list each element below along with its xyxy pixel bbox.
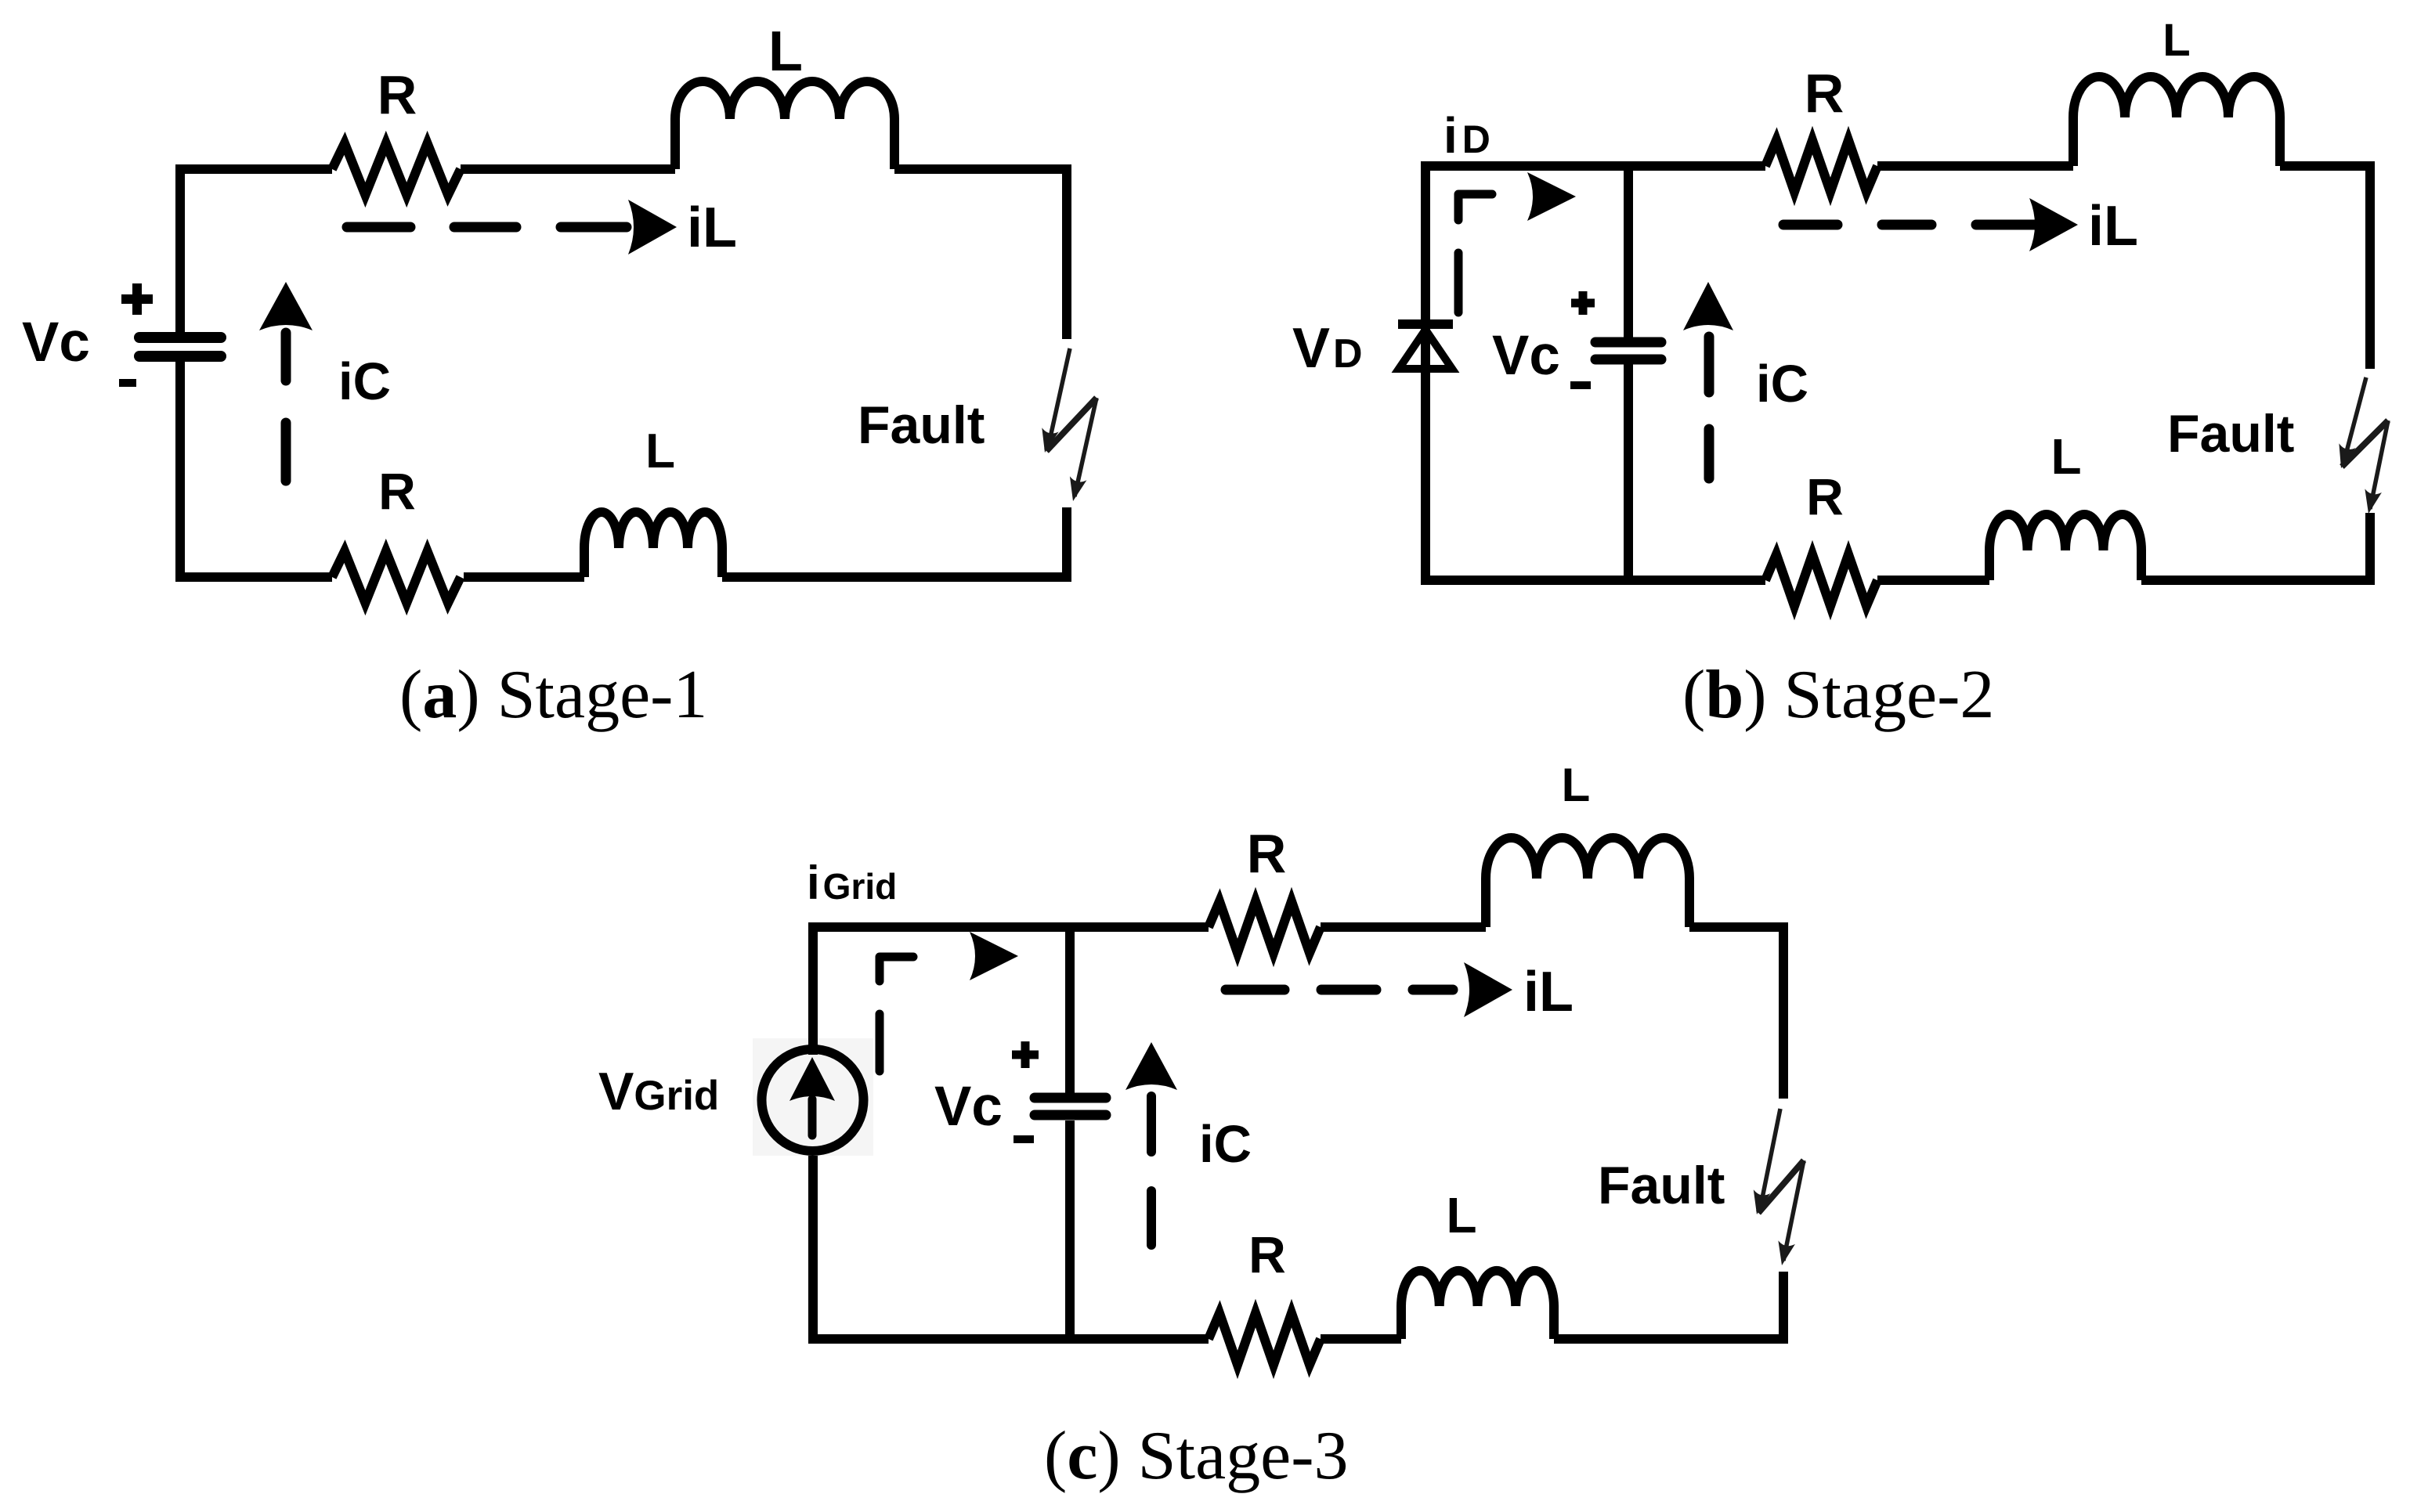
wire: stage3 top between R and L	[1321, 922, 1486, 932]
wire: stage2 top wire to R	[1425, 161, 1765, 171]
wire: stage3 bottom between L and R	[1321, 1334, 1401, 1344]
inductor L (stage1 bottom)	[584, 512, 722, 577]
current arrow iC (stage3)	[1126, 1042, 1177, 1090]
resistor R (stage3 top)	[1209, 901, 1321, 953]
diode VD (stage2): triangle	[1399, 330, 1452, 369]
svg-text:Vc: Vc	[934, 1076, 1003, 1138]
capacitor C (stage3): plates	[1035, 1093, 1106, 1103]
wire: stage2 bottom-left to diode branch	[1425, 576, 1765, 585]
current arrow iC (stage1)	[259, 282, 313, 330]
wire: stage2 right below fault + bottom to inductor	[2141, 513, 2370, 580]
source VGrid (stage3): circle	[762, 1049, 864, 1151]
wire: stage3 bottom-left + left vertical lower	[813, 1156, 1209, 1339]
current arrow iC (stage2)	[1683, 282, 1733, 330]
svg-text:iL: iL	[1523, 961, 1574, 1023]
svg-text:R: R	[378, 462, 416, 520]
resistor R (stage2 top)	[1765, 140, 1877, 192]
inductor L (stage2 bottom)	[1989, 514, 2141, 580]
svg-text:L: L	[1562, 759, 1591, 811]
wire: stage2 capacitor branch upper	[1624, 166, 1633, 337]
svg-text:Vc: Vc	[1492, 325, 1560, 387]
plus sign (stage2 capacitor)	[1571, 291, 1595, 315]
svg-text:L: L	[2162, 15, 2190, 66]
wire: stage1 bottom between L and R	[464, 572, 584, 582]
inductor L (stage3 top)	[1486, 838, 1689, 927]
svg-text:L: L	[645, 424, 675, 478]
capacitor C (stage1): plates	[139, 332, 221, 343]
wire: stage2 capacitor branch lower	[1624, 363, 1633, 580]
svg-text:Vc: Vc	[22, 312, 90, 373]
resistor R (stage3 bottom)	[1209, 1313, 1321, 1365]
halo behind source circle (stage3)	[753, 1038, 873, 1156]
svg-text:iL: iL	[2088, 195, 2138, 258]
current arrow iGrid (stage3, dashed corner)	[880, 957, 913, 981]
wire: stage2 top between R and L	[1877, 161, 2073, 171]
wire: stage1 right below fault, bottom wire to inductor	[722, 507, 1067, 577]
resistor R (stage1 top)	[332, 143, 461, 195]
svg-text:Fault: Fault	[1598, 1156, 1725, 1215]
source VGrid (stage3): arrow inside	[789, 1057, 835, 1101]
svg-text:R: R	[1805, 63, 1845, 124]
svg-text:(c) Stage-3: (c) Stage-3	[1044, 1418, 1349, 1494]
current arrow iL (stage1, dashed)	[347, 222, 627, 233]
svg-text:R: R	[1247, 823, 1287, 884]
svg-text:L: L	[2050, 428, 2081, 485]
wire: stage3 left vertical upper + top wire to R	[813, 927, 1209, 1055]
wire: stage1 top-right corner and right wire to fault gap	[894, 169, 1067, 339]
minus sign (stage1 capacitor)	[119, 379, 136, 387]
wire: stage3 capacitor branch upper	[1065, 927, 1075, 1093]
svg-text:iC: iC	[338, 352, 391, 411]
svg-text:R: R	[1806, 467, 1844, 525]
wire: stage1 top between R and L	[461, 164, 675, 174]
resistor R (stage2 bottom)	[1765, 554, 1877, 606]
current arrow iD (stage2, dashed corner)	[1458, 194, 1492, 220]
resistor R (stage1 bottom)	[332, 551, 461, 603]
current arrow iL (stage3, dashed)	[1226, 985, 1453, 995]
svg-text:(a) Stage-1: (a) Stage-1	[399, 657, 707, 733]
fault lightning bolt (stage1)	[1048, 348, 1070, 448]
fault lightning bolt (stage2)	[2343, 377, 2366, 464]
svg-text:iL: iL	[687, 197, 737, 259]
svg-text:L: L	[1446, 1187, 1476, 1243]
wire: stage3 right below fault + bottom to inductor	[1554, 1272, 1783, 1339]
wire: stage1 left vertical (top half) and top wire to R	[180, 169, 332, 332]
wire: stage3 capacitor branch lower	[1065, 1120, 1075, 1339]
svg-text:R: R	[378, 64, 417, 125]
minus sign (stage2 capacitor)	[1570, 381, 1591, 389]
wire: stage1 bottom-left + left vertical (bottom half)	[180, 362, 332, 577]
plus sign (stage1 capacitor)	[121, 283, 153, 315]
minus sign (stage3 capacitor)	[1014, 1135, 1034, 1143]
svg-text:L: L	[768, 20, 803, 83]
wire: stage3 top-right corner, right wire to fault gap	[1689, 927, 1783, 1099]
fault lightning bolt (stage3)	[1760, 1109, 1780, 1210]
svg-text:R: R	[1248, 1225, 1286, 1283]
current arrow iL (stage2, dashed)	[1783, 220, 2035, 230]
inductor L (stage3 bottom)	[1401, 1271, 1554, 1339]
svg-text:(b) Stage-2: (b) Stage-2	[1682, 657, 1994, 733]
svg-text:iC: iC	[1199, 1115, 1252, 1174]
plus sign (stage3 capacitor)	[1012, 1041, 1039, 1068]
svg-text:iC: iC	[1756, 355, 1808, 413]
inductor L (stage1 top)	[675, 81, 894, 169]
wire: stage2 bottom between L and R	[1877, 576, 1989, 585]
svg-text:Fault: Fault	[2167, 404, 2294, 464]
wire: stage2 top-right corner, right wire to fault gap	[2280, 166, 2370, 369]
diode VD (stage2): cathode bar	[1398, 319, 1453, 329]
capacitor C (stage2): plates	[1595, 337, 1661, 348]
wire: stage2 left vertical (diode branch) full height	[1421, 161, 1430, 585]
svg-text:Fault: Fault	[858, 395, 985, 455]
inductor L (stage2 top)	[2073, 77, 2280, 166]
